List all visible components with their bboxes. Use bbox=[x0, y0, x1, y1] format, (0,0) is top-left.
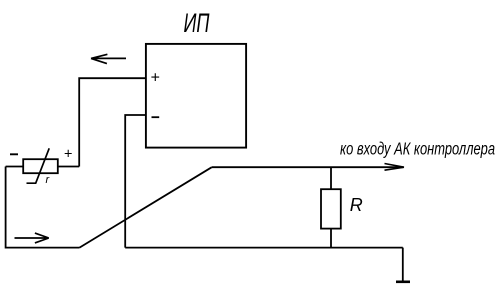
wire: transducer − pin to left then down bbox=[125, 115, 146, 248]
thermistor r diagonal stroke bbox=[27, 148, 50, 183]
current direction arrow (bottom) bbox=[15, 233, 49, 243]
thermistor r body bbox=[23, 159, 58, 173]
wire: diagonal crossing segment bbox=[80, 167, 212, 247]
pin label − (transducer input) bbox=[152, 116, 160, 118]
svg-text:+: + bbox=[150, 70, 159, 87]
svg-text:ИП: ИП bbox=[184, 8, 210, 38]
polarity label − (thermistor) bbox=[10, 153, 18, 155]
wire: thermistor + terminal up and to transducer + pin bbox=[79, 78, 146, 166]
output arrowhead bbox=[385, 164, 405, 171]
wire: bus to ground bbox=[402, 248, 404, 282]
svg-text:r: r bbox=[46, 174, 51, 186]
ground bbox=[396, 280, 410, 283]
wire: thermistor left terminal bbox=[6, 166, 24, 168]
svg-text:R: R bbox=[350, 195, 363, 215]
wire: output line to controller bbox=[212, 166, 404, 168]
svg-text:ко входу АК контроллера: ко входу АК контроллера bbox=[340, 138, 495, 158]
wire: thermistor right terminal bbox=[58, 166, 79, 168]
wire: bottom bus bbox=[125, 247, 403, 249]
wire: resistor bottom to bus bbox=[330, 229, 332, 248]
svg-text:+: + bbox=[64, 146, 72, 162]
transducer U1 box bbox=[146, 44, 246, 148]
wire: output node down to resistor bbox=[330, 167, 332, 189]
wire: left vertical down and bottom-left run bbox=[6, 167, 80, 248]
resistor R bbox=[321, 189, 341, 228]
current direction arrow (top) bbox=[91, 54, 126, 63]
